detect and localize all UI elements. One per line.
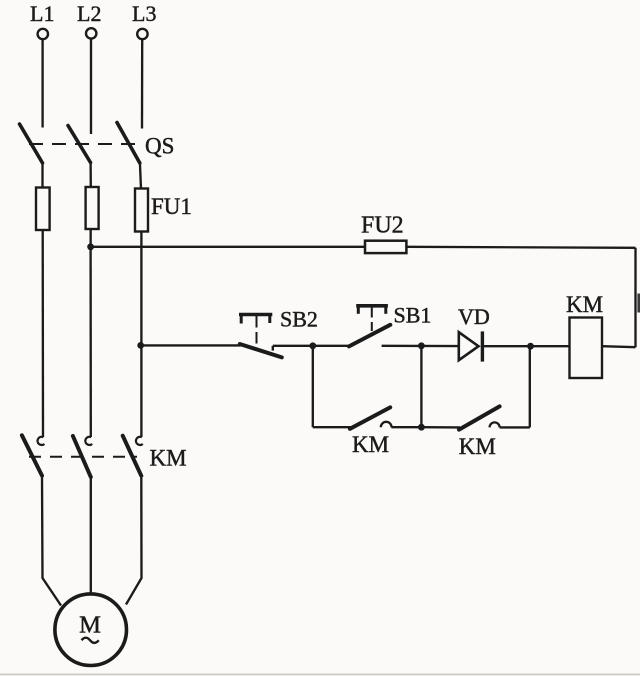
svg-text:KM: KM	[150, 446, 187, 471]
node junction on L2 feeding control circuit	[87, 243, 94, 250]
contact KM aux 2	[459, 406, 500, 429]
node control tap on L3	[137, 342, 144, 349]
KM main linkage dashed line	[29, 456, 137, 458]
pushbutton SB2 (normally closed, stop)	[239, 313, 282, 357]
contactor KM main pole 3 blade	[123, 436, 142, 476]
wire FU2 line left	[91, 246, 366, 248]
svg-text:VD: VD	[458, 304, 490, 329]
wire SB1 to diode	[382, 345, 459, 348]
contactor KM main pole 2 fixed contact arc	[85, 437, 92, 445]
motor M	[55, 594, 127, 666]
node B (junction below SB1)	[418, 342, 425, 349]
contactor KM main pole 1 blade	[22, 435, 42, 475]
wire fuse1 to KM contact	[42, 230, 45, 437]
wire L1 terminal to QS	[41, 40, 43, 128]
node C (junction before coil)	[527, 343, 534, 350]
svg-text:SB1: SB1	[394, 303, 432, 328]
switch QS pole 1 blade	[20, 124, 43, 163]
wire L3 terminal to QS	[141, 40, 144, 129]
node A (junction after SB2)	[309, 342, 316, 349]
svg-text:KM: KM	[352, 432, 389, 457]
contactor KM main pole 3 fixed contact arc	[136, 437, 143, 445]
terminal L2	[77, 1, 101, 39]
wire QS pole2 to fuse	[89, 162, 92, 189]
wire QS pole1 to fuse	[41, 162, 43, 188]
wire SB2 to SB1	[273, 345, 350, 347]
pushbutton SB1 (normally open, start)	[349, 304, 390, 346]
wire aux2 to right riser	[500, 426, 530, 428]
svg-text:KM: KM	[566, 292, 603, 317]
terminal L3	[132, 1, 156, 39]
wire bottom branch left	[313, 426, 351, 428]
contact KM aux 1 (self holding)	[350, 407, 392, 428]
switch QS pole 3 blade	[117, 123, 140, 164]
wire FU2 line right	[406, 247, 635, 248]
wire coil to right edge	[602, 346, 636, 347]
svg-text:L1: L1	[30, 1, 54, 26]
svg-text:L3: L3	[132, 1, 156, 26]
wire right edge down to coil line	[634, 248, 636, 347]
wire bottom branch 2 left part	[421, 426, 460, 429]
wire branch 1 down from node A	[312, 346, 314, 427]
wire KM pole3 to motor	[126, 476, 142, 605]
svg-text:FU2: FU2	[361, 213, 404, 239]
node D (bottom junction)	[418, 424, 425, 431]
bottom edge faint scan line	[0, 674, 640, 676]
right edge scan artifact	[637, 294, 640, 313]
svg-text:KM: KM	[459, 434, 496, 459]
fuse FU2	[365, 241, 406, 253]
wire diode to coil	[482, 345, 569, 347]
switch QS pole 2 blade	[68, 126, 91, 163]
wire fuse3 to KM contact pole3 (crosses FU2 line, no junction)	[140, 232, 142, 438]
fuse FU1 pole 3	[135, 189, 148, 232]
svg-text:M: M	[79, 611, 101, 638]
fuse FU1 pole 1	[36, 188, 50, 231]
svg-text:FU1: FU1	[151, 194, 192, 219]
wire right riser up to node C	[529, 346, 531, 427]
terminal L1	[30, 1, 54, 39]
svg-text:SB2: SB2	[280, 307, 318, 332]
wire KM pole2 to motor	[90, 477, 92, 593]
fuse FU1 pole 2	[86, 187, 99, 229]
wire control line from tap to SB2	[141, 344, 241, 346]
coil KM	[570, 318, 603, 379]
wire junction to KM contact pole2	[89, 247, 92, 437]
wire QS pole3 to fuse	[140, 162, 141, 189]
diode VD	[459, 331, 483, 361]
wire L2 terminal to QS	[90, 39, 92, 134]
wire aux1 to node D	[391, 426, 421, 428]
contactor KM main pole 1 fixed contact arc	[38, 437, 45, 445]
svg-text:L2: L2	[77, 1, 101, 26]
motor AC tilde	[82, 638, 99, 643]
svg-text:QS: QS	[145, 134, 174, 159]
QS linkage dashed line	[29, 143, 141, 145]
wire fuse2 to junction node	[89, 229, 91, 247]
contactor KM main pole 2 blade	[73, 436, 91, 477]
wire branch 2 down from node B	[420, 346, 422, 427]
wire KM pole1 to motor	[42, 476, 61, 606]
